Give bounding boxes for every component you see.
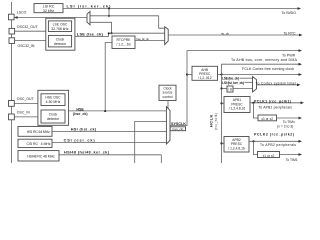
svg-text:CSI (csi_ck): CSI (csi_ck) <box>64 139 96 143</box>
RTCPRE divider <box>112 36 135 49</box>
mux RTC <box>165 27 169 45</box>
arrow to TIM1 <box>299 153 303 156</box>
wire HCLK vertical <box>221 75 223 164</box>
node pclk1 branch <box>252 102 254 104</box>
multiplier x1 or x2 APB1 <box>258 115 277 121</box>
wire sys_ck output <box>170 51 300 126</box>
LSI RC oscillator <box>34 4 63 13</box>
divider /8 <box>227 86 233 92</box>
svg-text:control: control <box>163 95 173 99</box>
CSI RC oscillator <box>18 139 52 147</box>
node lsi junction mid <box>108 15 110 17</box>
wire pll1_p_ck riser <box>135 122 167 164</box>
mux system timer <box>253 77 257 93</box>
AHB PRESC divider <box>192 66 218 80</box>
wire lse to RTC mux <box>109 33 165 36</box>
wire to cortex system timer <box>257 84 299 86</box>
svg-text:To Cortex system timer: To Cortex system timer <box>256 81 297 85</box>
wire hclk to APB2 <box>222 142 225 144</box>
arrow to TIMx <box>299 117 303 120</box>
wire lse riser to LSCO mux <box>90 22 112 33</box>
wire lsi_ker_ck to IWDG <box>63 8 299 10</box>
pin OSC32_IN <box>9 38 15 44</box>
multiplier x1 or x2 APB2 <box>258 152 280 158</box>
svg-text:(hse_ck): (hse_ck) <box>73 112 88 116</box>
svg-text:LSE OSC: LSE OSC <box>53 23 68 27</box>
wire hse_ck to sys mux <box>69 110 167 112</box>
svg-text:/ 1,2..512: / 1,2..512 <box>198 76 212 80</box>
wire to x1or x2 tim <box>253 103 258 118</box>
wire OSC_OUT to HSE <box>14 102 38 104</box>
node lsi junction top <box>108 7 110 9</box>
left pin rail <box>11 2 13 163</box>
LSE OSC box <box>48 21 71 32</box>
APB2 PRESC divider <box>224 137 249 153</box>
svg-text:4-50 MHz: 4-50 MHz <box>46 100 61 104</box>
svg-text:To APB2 peripherals: To APB2 peripherals <box>260 143 296 147</box>
svg-text:LSI (lsi_ker_ck): LSI (lsi_ker_ck) <box>67 3 112 8</box>
node lse corner <box>108 32 110 34</box>
wire into AHB PRESC <box>187 74 192 76</box>
node pclk2 branch <box>252 140 254 142</box>
arrow to RTC <box>299 34 303 37</box>
HSE clock detector box <box>41 110 65 123</box>
arrow pclk1 <box>301 101 305 104</box>
pin OSC_IN <box>9 114 15 120</box>
node hclk branch <box>220 73 222 75</box>
svg-text:detector: detector <box>54 42 67 46</box>
svg-text:LSI (lsi_ker_ck): LSI (lsi_ker_ck) <box>222 81 244 85</box>
wire control to sys mux <box>167 101 169 109</box>
node hclk to APB2 <box>220 142 222 144</box>
HSE container <box>38 90 69 125</box>
wire to TIM1 <box>280 154 301 156</box>
svg-text:x1 or x2: x1 or x2 <box>261 117 273 121</box>
node lse rise junction <box>110 32 112 34</box>
svg-text:RTCPRE: RTCPRE <box>117 38 132 42</box>
svg-text:(sys_ck): (sys_ck) <box>172 127 183 131</box>
wire hclk to APB1 <box>222 102 225 104</box>
wire OSC_IN to HSE <box>14 116 38 118</box>
svg-text:HSI48 RC 48 MHz: HSI48 RC 48 MHz <box>27 155 55 159</box>
wire to x1 or x2 tim1 <box>254 141 258 154</box>
wire lsi to LSCO mux and toward RTC mux <box>90 15 159 17</box>
svg-text:To TIM1: To TIM1 <box>286 158 298 162</box>
svg-text:(rcc_hclk): (rcc_hclk) <box>214 113 218 130</box>
wire to TIMx <box>277 117 301 119</box>
pin OSC32_OUT <box>9 28 15 34</box>
svg-text:To AHB bus, core, memory and D: To AHB bus, core, memory and DMA <box>231 58 298 62</box>
wire hsi_ck <box>53 131 167 133</box>
wire RTCPRE out to RTC mux <box>135 40 165 42</box>
svg-text:/ 1,2,4,8,16: / 1,2,4,8,16 <box>228 146 245 150</box>
node hclk to APB1 <box>220 102 222 104</box>
wire /8 out <box>233 88 253 90</box>
node hclk to /8 <box>220 87 222 89</box>
wire hse riser to RTCPRE <box>105 43 112 112</box>
wire lsi to rtc mux input <box>159 16 165 28</box>
svg-text:Clock: Clock <box>49 113 58 117</box>
svg-text:SYSCLK: SYSCLK <box>171 122 186 126</box>
svg-text:HSE OSC: HSE OSC <box>45 96 61 100</box>
arrow to AHB bus <box>299 63 303 66</box>
wire hsi48_ker_ck <box>59 154 161 156</box>
wire lse_ck <box>75 36 109 38</box>
svg-text:LSCO: LSCO <box>17 11 27 15</box>
svg-text:Clock: Clock <box>56 38 65 42</box>
svg-text:(x = 2 to 3): (x = 2 to 3) <box>277 124 293 128</box>
svg-text:To RTC: To RTC <box>284 32 297 36</box>
mux LSCO <box>87 11 90 24</box>
wire pclk2 <box>249 140 300 142</box>
svg-text:LSE (lse_ck): LSE (lse_ck) <box>222 76 239 80</box>
wire lse stub <box>240 77 253 79</box>
svg-text:/ 1,2,...63: / 1,2,...63 <box>116 43 130 47</box>
HSE OSC box <box>41 94 65 106</box>
arrow to PWR <box>299 49 303 52</box>
arrow cortex system timer <box>297 83 301 86</box>
svg-text:x1 or x2: x1 or x2 <box>263 154 275 158</box>
svg-text:PCLK1 (rcc_pclk1): PCLK1 (rcc_pclk1) <box>254 99 292 103</box>
svg-text:32 kHz: 32 kHz <box>43 9 54 13</box>
svg-text:CSI RC 4 MHz: CSI RC 4 MHz <box>27 142 51 146</box>
arrow FCLK <box>299 73 303 76</box>
wire csi_ck <box>53 142 167 144</box>
svg-text:HSI RC 64 MHz: HSI RC 64 MHz <box>27 130 50 134</box>
wire to AHB bus <box>222 64 301 74</box>
wire lsi stub <box>245 81 253 83</box>
svg-text:FCLK Cortex free running clock: FCLK Cortex free running clock <box>242 67 294 71</box>
wire OSC32_IN to LSE <box>15 40 46 42</box>
svg-text:OSC32_OUT: OSC32_OUT <box>17 25 39 29</box>
arrow at LSCO pin <box>14 16 18 19</box>
svg-text:HSI48 (hsi48_ker_ck): HSI48 (hsi48_ker_ck) <box>64 151 110 155</box>
svg-text:To IWDG: To IWDG <box>282 11 297 15</box>
arrow pclk2 <box>299 140 303 143</box>
mux sys_ck <box>166 107 170 144</box>
svg-text:/ 1,2,4,8,16: / 1,2,4,8,16 <box>229 107 246 111</box>
svg-text:To APB1 peripherals: To APB1 peripherals <box>258 106 292 110</box>
LSE clock detector box <box>48 35 71 47</box>
APB1 PRESC divider <box>224 97 250 113</box>
node sysck to AHB <box>186 73 188 75</box>
HSI48 RC oscillator <box>18 151 59 161</box>
Clock source control box <box>159 85 176 100</box>
arrow to IWDG <box>298 7 302 10</box>
svg-text:PCLK2 (rcc_pclk2): PCLK2 (rcc_pclk2) <box>254 133 295 137</box>
svg-text:OSC32_IN: OSC32_IN <box>18 44 35 48</box>
svg-text:/ 8: / 8 <box>228 88 232 92</box>
svg-text:HSI (hsi_ck): HSI (hsi_ck) <box>71 127 97 131</box>
node hse junction <box>104 110 106 112</box>
svg-text:OSC_OUT: OSC_OUT <box>17 97 35 101</box>
pin LSCO <box>9 14 15 20</box>
svg-text:detector: detector <box>47 117 60 121</box>
svg-text:LSE (lse_ck): LSE (lse_ck) <box>77 32 104 37</box>
svg-text:32.768 kHz: 32.768 kHz <box>51 27 68 31</box>
svg-text:HCLK: HCLK <box>209 114 214 127</box>
wire PLL box right edge <box>160 155 162 163</box>
wire hclk/fclk <box>218 74 301 76</box>
wire rtc_ck to RTC <box>168 34 300 36</box>
wire lsi drop to lsco/rtc <box>108 9 110 16</box>
wire hclk to /8 <box>222 88 228 90</box>
svg-text:OSC_IN: OSC_IN <box>17 111 31 115</box>
wire pclk1 <box>250 102 302 104</box>
wire LSCO output to pin <box>15 17 87 19</box>
svg-text:rtc_ck: rtc_ck <box>221 31 230 35</box>
HSI RC oscillator <box>18 126 52 136</box>
wire OSC32_OUT to LSE <box>15 30 46 32</box>
LSE container <box>46 18 75 50</box>
label sys_ck boxed <box>170 127 185 131</box>
pin OSC_OUT <box>9 101 15 107</box>
svg-text:To PWR: To PWR <box>282 53 296 57</box>
